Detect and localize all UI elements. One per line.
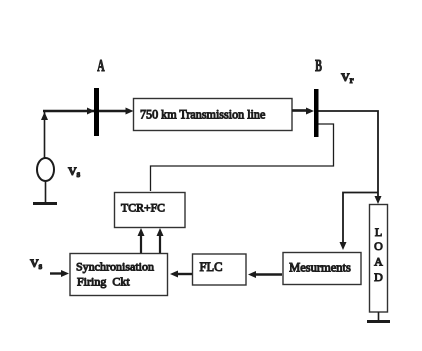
svg-text:Mesurments: Mesurments [289, 261, 351, 275]
svg-text:FLC: FLC [200, 260, 223, 274]
arrowhead down into measurements [340, 242, 347, 250]
arrow firing ckt to TCR 2 [159, 234, 161, 253]
ground (source) [33, 202, 57, 205]
bus B [314, 89, 319, 137]
arrowhead up into main wire [41, 112, 48, 120]
wire load to ground [378, 312, 380, 321]
wire main from source junction to transmission line [43, 110, 128, 113]
svg-text:O: O [374, 239, 383, 253]
wire arrowhead into bus A [87, 108, 95, 115]
arrow measurements to FLC [254, 273, 282, 275]
wire arrowhead into transmission line box [126, 108, 134, 115]
synchronisation firing circuit box [70, 254, 168, 296]
svg-text:Vr: Vr [341, 70, 354, 85]
svg-text:Vs: Vs [30, 256, 43, 271]
ground (load) [367, 320, 390, 323]
FLC box [193, 254, 247, 285]
wire transmission line to bus B [292, 109, 308, 112]
svg-text:Vs: Vs [68, 164, 81, 179]
arrowhead into bus B [306, 108, 314, 115]
svg-text:TCR+FC: TCR+FC [121, 201, 165, 215]
measurements box [283, 253, 361, 285]
node A label [97, 57, 104, 75]
svg-text:D: D [374, 270, 383, 284]
wire source to ground [45, 181, 47, 203]
arrowhead down into load [375, 196, 382, 204]
wire bus B to load [319, 111, 379, 197]
transmission line box [134, 99, 293, 131]
svg-text:A: A [374, 255, 383, 269]
wire branch to measurements [343, 193, 378, 244]
arrow firing ckt to TCR 1 [140, 234, 142, 253]
TCR+FC box [115, 193, 186, 228]
voltage source Vs [37, 158, 54, 181]
svg-text:B: B [315, 57, 322, 75]
svg-text:Firing Ckt: Firing Ckt [77, 275, 130, 289]
svg-text:A: A [97, 57, 104, 75]
bus A [94, 88, 99, 136]
arrow Vs into sync box [50, 272, 63, 274]
arrow FLC to sync box [176, 273, 192, 275]
svg-text:L: L [375, 225, 382, 239]
node B label [315, 57, 322, 75]
svg-text:Synchronisation: Synchronisation [76, 260, 154, 274]
wire bus B to TCR+FC [151, 124, 334, 191]
load box [370, 205, 388, 313]
svg-text:750 km Transmission line: 750 km Transmission line [140, 108, 265, 122]
wire source vertical [44, 112, 46, 158]
